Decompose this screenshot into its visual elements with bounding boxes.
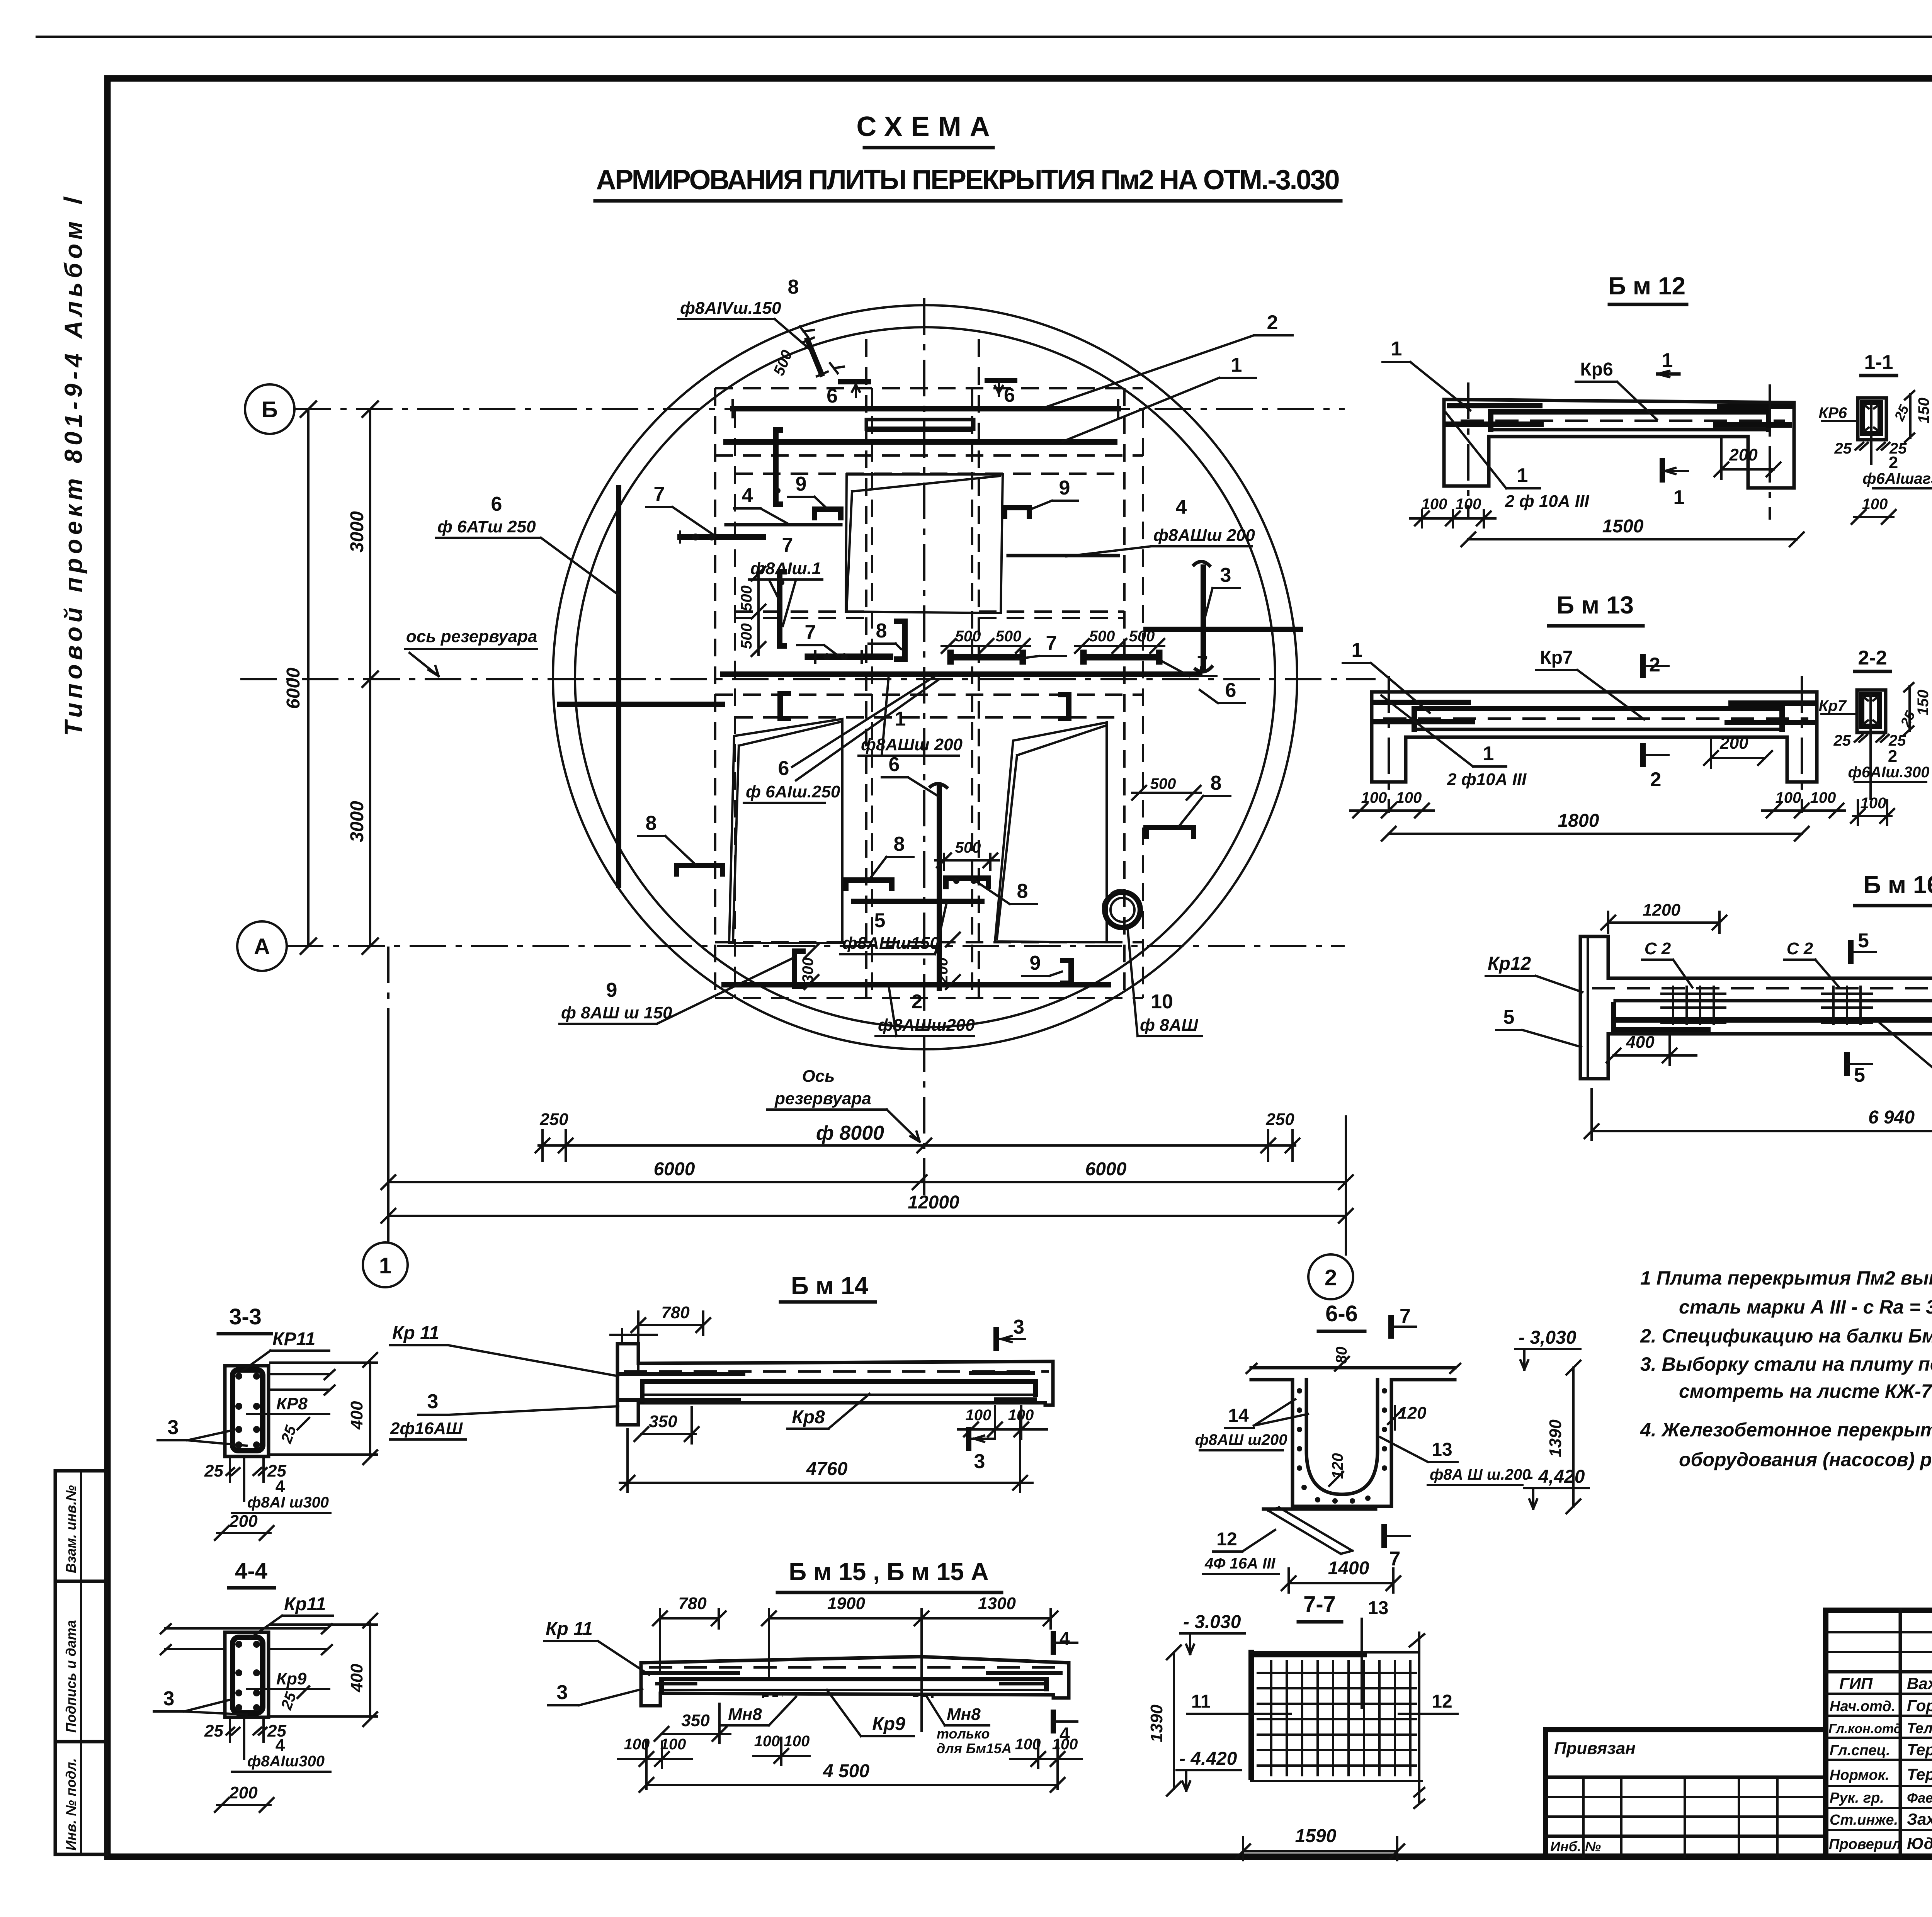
- slab dashed edge left pair: [714, 388, 716, 998]
- svg-text:25: 25: [1834, 440, 1852, 457]
- column bubble 1: [363, 1242, 408, 1287]
- svg-text:Теляковский: Теляковский: [1907, 1720, 1932, 1737]
- bar 3 left horizontal: [560, 702, 722, 707]
- title block role names: [1828, 1674, 1932, 1852]
- left margin stamp boxes: [55, 1471, 107, 1854]
- label ось резервуара left: [405, 627, 537, 676]
- bracket 8 right: [1132, 775, 1201, 836]
- svg-text:100: 100: [1396, 789, 1422, 806]
- section mark 1 top: [1658, 349, 1679, 377]
- svg-text:ф8АШш 200: ф8АШш 200: [861, 735, 963, 754]
- section 7-7 labels: [1147, 1598, 1458, 1860]
- section 3-3 drawing: [225, 1366, 335, 1456]
- svg-text:Привязан: Привязан: [1554, 1739, 1636, 1758]
- section mark 1 bottom: [1662, 461, 1688, 509]
- svg-text:9: 9: [1059, 477, 1070, 499]
- svg-text:7: 7: [805, 621, 816, 644]
- left dim line 6000: [283, 401, 316, 954]
- svg-text:200: 200: [229, 1512, 258, 1531]
- svg-text:12000: 12000: [908, 1192, 959, 1213]
- label Кр10: [1880, 1023, 1932, 1067]
- label 2 top right: [1043, 311, 1293, 408]
- svg-text:9: 9: [1030, 952, 1041, 974]
- svg-text:КР6: КР6: [1818, 404, 1847, 421]
- svg-text:4Ф 16А III: 4Ф 16А III: [1204, 1555, 1276, 1572]
- bar 7 left with dots: [680, 532, 764, 542]
- bar bottom long horizontal: [724, 982, 1108, 987]
- left dim line 3000+3000: [347, 401, 378, 954]
- svg-text:11: 11: [1191, 1691, 1211, 1712]
- slab dashed horizontals lower band: [715, 693, 1143, 696]
- svg-text:1390: 1390: [1546, 1419, 1565, 1457]
- beam Бм13 rebar cage Кр7: [1374, 702, 1814, 729]
- svg-text:Ст.инже.: Ст.инже.: [1830, 1812, 1898, 1828]
- svg-text:6-6: 6-6: [1325, 1301, 1358, 1326]
- svg-text:4: 4: [276, 1736, 285, 1755]
- svg-text:ф8АI ш300: ф8АI ш300: [247, 1494, 329, 1511]
- svg-text:4: 4: [1176, 496, 1187, 518]
- bar 2 top: [733, 400, 1118, 417]
- svg-text:Кр7: Кр7: [1540, 647, 1573, 668]
- svg-text:2: 2: [1650, 768, 1662, 791]
- mesh С2 grid 2: [1822, 987, 1872, 1024]
- svg-text:Терешин: Терешин: [1907, 1765, 1932, 1783]
- svg-text:2-2: 2-2: [1858, 647, 1887, 669]
- svg-text:3: 3: [557, 1681, 568, 1704]
- axis bubble Б: [245, 384, 294, 434]
- column bubble 2: [1308, 1254, 1353, 1299]
- label С2 second: [1784, 939, 1839, 987]
- label 8 centre low: [869, 833, 913, 879]
- svg-text:780: 780: [678, 1594, 707, 1613]
- bar 5 centre horizontal: [854, 899, 982, 904]
- label 6 far right: [1200, 679, 1245, 703]
- beam Бм12 rebar cage Кр6: [1448, 406, 1790, 430]
- section mark 6 left: [827, 382, 868, 407]
- Мн8 dashed inserts: [763, 1693, 932, 1698]
- dim 6940 Бм16: [1585, 1089, 1932, 1140]
- label 10 ф8АШ bottom right: [1128, 927, 1202, 1036]
- svg-text:ф8АIш.1: ф8АIш.1: [750, 559, 821, 578]
- section 4-4 drawing: [161, 1624, 332, 1717]
- bar 3 right horizontal: [1146, 627, 1300, 632]
- svg-text:7: 7: [1046, 632, 1057, 654]
- svg-text:ф 8АШ: ф 8АШ: [1140, 1016, 1198, 1035]
- svg-text:ф6АIшаг300: ф6АIшаг300: [1862, 470, 1932, 487]
- dim 100 100 left Бм13: [1350, 789, 1434, 817]
- svg-text:2 ф 10А III: 2 ф 10А III: [1505, 492, 1589, 511]
- label Кр6: [1576, 359, 1657, 420]
- dim 12000: [381, 1192, 1353, 1223]
- beam Бм15 outline: [641, 1657, 1069, 1706]
- svg-text:6: 6: [1004, 384, 1015, 406]
- svg-text:Подпись и дата: Подпись и дата: [63, 1620, 79, 1733]
- stirrup bar centre 500+500: [942, 628, 1030, 661]
- svg-text:3000: 3000: [347, 511, 367, 552]
- label 3 Бм15: [548, 1681, 642, 1705]
- svg-text:СХЕМА: СХЕМА: [856, 111, 998, 142]
- axis Б horizontal: [294, 408, 1345, 410]
- svg-text:С 2: С 2: [1787, 939, 1813, 958]
- beam Бм15 title: [777, 1558, 1002, 1592]
- label Ось резервуара bottom: [767, 1067, 920, 1142]
- svg-text:6000: 6000: [1085, 1159, 1127, 1179]
- svg-text:2ф16АШ: 2ф16АШ: [390, 1419, 463, 1438]
- section 6-6 drawing: [1247, 1364, 1460, 1506]
- svg-text:Гл.спец.: Гл.спец.: [1830, 1742, 1890, 1759]
- svg-text:Б м 12: Б м 12: [1608, 272, 1685, 300]
- slab dashed verticals centre-left pair: [865, 339, 867, 998]
- section mark 2 top: [1643, 654, 1668, 676]
- svg-text:Гл.кон.отд: Гл.кон.отд: [1828, 1722, 1902, 1736]
- svg-text:Б м 16: Б м 16: [1863, 871, 1932, 899]
- slab dashed horizontals bottom band: [715, 941, 1143, 943]
- svg-text:400: 400: [1626, 1033, 1655, 1052]
- svg-text:1-1: 1-1: [1864, 351, 1893, 374]
- svg-text:6: 6: [778, 757, 789, 780]
- svg-text:смотреть на листе КЖ-7.: смотреть на листе КЖ-7.: [1679, 1380, 1932, 1402]
- section mark 4 bottom Бм15: [1053, 1712, 1077, 1745]
- svg-text:ф8АШш200: ф8АШш200: [878, 1016, 975, 1035]
- bracket 9 lower left: [780, 693, 788, 719]
- svg-text:3-3: 3-3: [229, 1304, 262, 1329]
- svg-text:Кр12: Кр12: [1488, 953, 1531, 974]
- svg-text:только: только: [937, 1726, 990, 1742]
- svg-text:Ось: Ось: [802, 1067, 835, 1086]
- svg-text:500: 500: [1129, 628, 1155, 645]
- section 3-3 title: [218, 1304, 271, 1334]
- svg-text:оборудования (насосов) равны: оборудования (насосов) равный 1,2 т: [1679, 1449, 1932, 1470]
- beam Бм13 outline: [1372, 692, 1817, 782]
- svg-text:350: 350: [649, 1412, 677, 1431]
- dim 100 100 right Бм13: [1762, 789, 1845, 817]
- svg-text:ф8АIш300: ф8АIш300: [247, 1753, 325, 1770]
- svg-text:2: 2: [1267, 311, 1278, 334]
- section 6-6 labels: [1195, 1305, 1589, 1592]
- svg-text:С 2: С 2: [1645, 939, 1671, 958]
- svg-text:6: 6: [491, 493, 502, 515]
- tank axis horizontal: [240, 678, 1376, 680]
- svg-text:150: 150: [1915, 690, 1932, 715]
- beam Бм14 title: [781, 1272, 875, 1302]
- svg-text:Рук. гр.: Рук. гр.: [1830, 1790, 1884, 1806]
- svg-text:500: 500: [996, 628, 1022, 645]
- dim 6000+6000: [381, 1159, 1353, 1189]
- svg-text:ф 6АТш 250: ф 6АТш 250: [437, 517, 536, 536]
- section 1-1: [1818, 351, 1932, 524]
- svg-text:Кр 11: Кр 11: [392, 1323, 439, 1343]
- drawing main title: [595, 111, 1341, 201]
- section mark 4 top Бм15: [1053, 1629, 1077, 1652]
- label 7 far right: [1162, 652, 1216, 676]
- section mark 3 top Бм14: [996, 1316, 1025, 1348]
- label Кр7: [1536, 647, 1644, 719]
- svg-text:10: 10: [1151, 991, 1173, 1013]
- label 1 ф8АШш200 centre: [859, 675, 963, 756]
- svg-text:8: 8: [646, 812, 657, 834]
- label 1 left leader: [1383, 338, 1470, 410]
- dim 200 Бм13: [1704, 734, 1772, 768]
- label 3 right: [1205, 564, 1240, 618]
- svg-text:Вахрушев: Вахрушев: [1907, 1674, 1932, 1693]
- svg-text:8: 8: [1017, 880, 1028, 902]
- svg-text:250: 250: [539, 1110, 568, 1129]
- svg-text:25: 25: [204, 1722, 223, 1740]
- dim 100 100 centre Бм15: [753, 1733, 810, 1765]
- svg-text:100: 100: [1361, 789, 1387, 806]
- stirrup bar right 500+500: [1075, 628, 1164, 661]
- dim 400 Бм16: [1607, 1033, 1696, 1065]
- label 8 centre: [869, 620, 901, 649]
- svg-text:100: 100: [1810, 789, 1836, 806]
- svg-text:100: 100: [1015, 1736, 1041, 1753]
- svg-text:120: 120: [1398, 1404, 1427, 1422]
- beam Бм14 rebar Кр8: [619, 1371, 1049, 1402]
- section 7-7 title: [1298, 1592, 1342, 1622]
- svg-text:КР11: КР11: [272, 1329, 315, 1349]
- dim 1200 Бм16: [1601, 901, 1726, 933]
- svg-text:1: 1: [1662, 349, 1673, 372]
- section mark 3 bottom Бм14: [969, 1429, 994, 1473]
- svg-text:400: 400: [347, 1401, 366, 1430]
- svg-text:350: 350: [681, 1711, 710, 1730]
- svg-text:ф8АIVш.150: ф8АIVш.150: [680, 299, 781, 318]
- svg-text:780: 780: [661, 1303, 690, 1322]
- svg-text:4 500: 4 500: [823, 1761, 869, 1781]
- svg-text:150: 150: [1915, 398, 1932, 423]
- svg-text:Кр11: Кр11: [284, 1594, 326, 1614]
- svg-text:500: 500: [955, 839, 981, 856]
- svg-text:12: 12: [1216, 1529, 1237, 1550]
- svg-text:500: 500: [738, 623, 755, 649]
- bar 1 upper: [726, 439, 1115, 445]
- svg-text:3: 3: [974, 1450, 985, 1473]
- svg-text:6 940: 6 940: [1868, 1107, 1915, 1128]
- svg-text:1200: 1200: [1643, 901, 1680, 919]
- svg-text:2 ф10А III: 2 ф10А III: [1447, 770, 1527, 789]
- section mark 2 bottom: [1643, 746, 1668, 791]
- dim 200 vertical: [934, 933, 960, 989]
- svg-text:Мн8: Мн8: [947, 1705, 981, 1724]
- section 3-3 labels: [158, 1329, 377, 1540]
- stirrup slanted top: [770, 326, 844, 378]
- svg-text:КР8: КР8: [276, 1394, 308, 1413]
- beam Бм16 outline: [1580, 934, 1932, 1084]
- dim 300 vertical: [794, 944, 818, 989]
- title block frame: [1826, 1610, 1932, 1857]
- bar 7 centre with dots: [808, 651, 890, 663]
- label 6 ф6АТш250 upper left: [436, 493, 619, 595]
- slab dashed verticals centre-right pair: [971, 388, 973, 998]
- opening top centre: [846, 474, 1003, 613]
- dim 780 Бм14: [611, 1303, 710, 1370]
- svg-text:14: 14: [1228, 1405, 1249, 1426]
- slab dashed edge right pair: [1123, 388, 1126, 998]
- bracket 8 far left: [677, 865, 723, 874]
- bracket 7 upper left: [775, 430, 781, 504]
- bar 4 left: [726, 523, 841, 527]
- label 8 ф8АIVш.150 top: [678, 276, 813, 352]
- bracket 9 upper left: [815, 509, 841, 518]
- svg-text:4: 4: [1060, 1629, 1070, 1649]
- bar mid long horizontal: [723, 671, 1200, 677]
- svg-text:5: 5: [1854, 1064, 1865, 1086]
- label 7 centre right: [1016, 632, 1066, 659]
- opening bottom left: [729, 719, 842, 943]
- svg-text:120: 120: [1329, 1453, 1346, 1479]
- svg-text:8: 8: [788, 276, 799, 298]
- opening bottom right: [995, 722, 1107, 942]
- svg-text:5: 5: [1858, 930, 1869, 952]
- label 8 far right: [1179, 772, 1230, 827]
- svg-text:3: 3: [1220, 564, 1231, 586]
- svg-text:ф8А Ш ш.200: ф8А Ш ш.200: [1430, 1466, 1531, 1483]
- dim ф8000 with 250 margins: [536, 1110, 1299, 1161]
- label 3 2ф16АШ Бм14: [390, 1390, 618, 1439]
- label Мн8 только для Бм15А: [927, 1698, 1012, 1756]
- section 4-4 title: [229, 1558, 274, 1588]
- svg-text:Взам. инв.№: Взам. инв.№: [63, 1485, 79, 1573]
- svg-text:Б м 15 , Б м 15 А: Б м 15 , Б м 15 А: [789, 1558, 989, 1586]
- svg-text:Кр9: Кр9: [276, 1669, 307, 1688]
- svg-text:400: 400: [347, 1664, 366, 1693]
- svg-text:6000: 6000: [283, 668, 304, 709]
- svg-text:ф6АIш.300: ф6АIш.300: [1848, 764, 1929, 781]
- slab dashed horizontals mid band: [735, 610, 866, 613]
- paper trim line top: [37, 36, 1932, 38]
- label 4 upper left: [734, 484, 788, 524]
- label 6 ф6АIш.250 centre: [744, 675, 938, 803]
- section mark 5 bottom: [1847, 1055, 1872, 1086]
- svg-text:13: 13: [1368, 1598, 1388, 1618]
- svg-text:4-4: 4-4: [235, 1558, 267, 1584]
- svg-text:6: 6: [827, 385, 838, 407]
- svg-text:Б: Б: [262, 397, 278, 422]
- bracket 8 with dots centre: [935, 839, 999, 887]
- svg-text:2. Спецификацию на балки: 2. Спецификацию на балки Бм 12 ÷ Бм 16 с…: [1640, 1325, 1932, 1347]
- label 9 ф8АШш150 bottom left: [560, 958, 793, 1024]
- label С2 first: [1642, 939, 1692, 987]
- label 9 upper left: [788, 473, 827, 508]
- svg-text:6000: 6000: [654, 1159, 695, 1179]
- svg-text:1: 1: [1391, 338, 1402, 360]
- svg-text:Нормок.: Нормок.: [1830, 1767, 1889, 1783]
- label 1 2ф10АIII: [1446, 413, 1589, 511]
- svg-text:500: 500: [1089, 628, 1115, 645]
- label 8 far left: [638, 812, 696, 865]
- label 1 2ф10АIII Бм13: [1381, 695, 1527, 789]
- svg-text:25: 25: [204, 1462, 223, 1480]
- svg-text:3: 3: [427, 1390, 439, 1413]
- svg-text:6: 6: [1225, 679, 1236, 702]
- svg-text:4: 4: [276, 1477, 285, 1496]
- svg-text:7: 7: [1400, 1305, 1411, 1327]
- svg-text:1: 1: [1231, 354, 1242, 376]
- svg-text:100: 100: [660, 1736, 686, 1753]
- svg-text:ф 8000: ф 8000: [816, 1122, 884, 1144]
- svg-text:ф8АШш150: ф8АШш150: [842, 934, 939, 953]
- svg-text:- 3.030: - 3.030: [1183, 1612, 1241, 1632]
- svg-text:100: 100: [966, 1407, 992, 1424]
- section 2-2: [1819, 647, 1932, 825]
- svg-text:Проверил: Проверил: [1829, 1836, 1901, 1852]
- bracket 7 mid left: [779, 572, 784, 646]
- svg-text:Инв. № подл.: Инв. № подл.: [63, 1758, 79, 1851]
- beam Бм12 title: [1608, 272, 1687, 304]
- axis bubble А: [237, 921, 287, 971]
- dim 350 Бм14: [634, 1407, 699, 1443]
- label Кр8: [787, 1394, 869, 1429]
- svg-text:3: 3: [163, 1688, 175, 1710]
- label 1 left leader Бм13: [1343, 639, 1430, 713]
- svg-text:- 3,030: - 3,030: [1519, 1327, 1577, 1348]
- axis А horizontal: [287, 945, 1345, 947]
- section 6-6 bottom bars parallelogram: [1264, 1507, 1376, 1554]
- svg-text:Б м 14: Б м 14: [791, 1272, 869, 1300]
- svg-text:резервуара: резервуара: [774, 1089, 871, 1108]
- dim 500-500 vertical mid-left: [738, 567, 765, 656]
- dim 4760 Бм14: [620, 1414, 1032, 1492]
- svg-text:3000: 3000: [347, 801, 367, 842]
- bracket 8 centre tall: [896, 621, 905, 659]
- svg-text:Нач.отд.: Нач.отд.: [1830, 1698, 1895, 1715]
- tank axis vertical: [923, 298, 925, 1198]
- svg-text:25: 25: [1833, 732, 1851, 749]
- bracket 9 lower right: [1061, 695, 1069, 719]
- label Кр9: [827, 1690, 914, 1736]
- svg-text:7-7: 7-7: [1303, 1592, 1336, 1617]
- svg-text:ф 8АШ ш 150: ф 8АШ ш 150: [561, 1003, 672, 1022]
- svg-text:200: 200: [934, 957, 951, 984]
- dim 100 100 left Бм15: [618, 1736, 692, 1789]
- section mark 5 top: [1851, 930, 1876, 961]
- svg-text:6: 6: [889, 753, 900, 776]
- svg-text:ось резервуара: ось резервуара: [406, 627, 537, 646]
- svg-text:500: 500: [738, 585, 755, 611]
- label 4 ф8АШш200 right: [1066, 496, 1255, 556]
- svg-text:2: 2: [912, 991, 923, 1013]
- svg-text:- 4.420: - 4.420: [1179, 1749, 1237, 1769]
- bracket 9 bottom right: [1063, 960, 1071, 983]
- svg-text:1: 1: [895, 708, 906, 730]
- svg-text:Кр8: Кр8: [792, 1407, 825, 1428]
- svg-text:3. Выборку стали на плиту: 3. Выборку стали на плиту перекрытия Пм2…: [1640, 1353, 1932, 1375]
- svg-text:100: 100: [784, 1733, 810, 1750]
- label 9 bottom right: [1022, 952, 1062, 976]
- column extension lines: [387, 1012, 389, 1242]
- svg-text:Кр9: Кр9: [872, 1714, 905, 1734]
- svg-text:Мн8: Мн8: [728, 1705, 762, 1724]
- label Кр11 Бм15: [544, 1619, 649, 1675]
- label 2 ф8АШш200 bottom: [876, 986, 975, 1036]
- dim 100 100 right Бм15: [1010, 1736, 1082, 1789]
- svg-text:12: 12: [1432, 1691, 1452, 1712]
- label Кр11 Бм14: [390, 1323, 618, 1376]
- bar 6 centre vertical: [930, 783, 947, 988]
- svg-text:2: 2: [1889, 453, 1898, 472]
- svg-text:4: 4: [742, 484, 753, 507]
- notes text: [1640, 1267, 1932, 1470]
- dim 1800 Бм13: [1382, 811, 1809, 841]
- label Кр12: [1486, 953, 1582, 992]
- svg-text:АРМИРОВАНИЯ ПЛИТЫ ПЕРЕКРЫТИЯ П: АРМИРОВАНИЯ ПЛИТЫ ПЕРЕКРЫТИЯ Пм2 НА ОТМ.…: [596, 165, 1340, 195]
- svg-text:5: 5: [1503, 1006, 1515, 1028]
- svg-text:1 Плита перекрытия Пм2 вып: 1 Плита перекрытия Пм2 выполняется из бе…: [1640, 1267, 1932, 1289]
- svg-text:200: 200: [1729, 445, 1758, 464]
- dim 100 100 Бм14: [958, 1406, 1047, 1439]
- label 9 upper right: [1031, 477, 1078, 509]
- bracket 8 centre low: [846, 880, 892, 889]
